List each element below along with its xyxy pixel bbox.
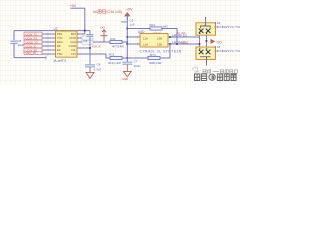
svg-text:1uF: 1uF (130, 22, 135, 26)
IC pin names left column (57, 32, 63, 56)
svg-text:U4D: U4D (138, 30, 145, 34)
svg-text:BAT: BAT (71, 32, 76, 36)
capacitor C5 (right of IC) (89, 31, 91, 34)
capacitor C7 (bus bottom) (122, 62, 132, 64)
wire: trunk x=177 (176, 29, 178, 45)
wire: Q1 to Q2 vertical x=206 (206, 35, 208, 47)
svg-text:HDGB02TVC.T30: HDGB02TVC.T30 (215, 49, 241, 53)
net label row 4 (24, 44, 42, 48)
svg-text:IOVD: IOVD (69, 36, 76, 40)
node: junction (206.5,41) (206, 40, 208, 42)
svg-text:UCAV_RX: UCAV_RX (26, 37, 38, 40)
svg-text:U2: U2 (54, 27, 58, 31)
ground symbol (under C4) (86, 72, 94, 78)
svg-text:CYRA2L 2L STETE3N: CYRA2L 2L STETE3N (140, 50, 182, 54)
svg-text:OO: OO (217, 40, 223, 44)
capacitor C4 (under C5 chain) (85, 65, 95, 67)
node: bus junction y=28.5 (126, 28, 128, 30)
node: junction (170,37) (169, 36, 171, 38)
svg-text:IA-4HT3: IA-4HT3 (54, 59, 66, 63)
wire: top rail y=30.5 (14, 30, 90, 32)
node: junction (170,44) (169, 43, 171, 45)
net label BAT (red row 6) (24, 51, 42, 55)
power arrow up (VOUT) (103, 31, 105, 42)
svg-text:C4: C4 (97, 63, 101, 67)
transistor Q1 body (196, 23, 216, 35)
svg-text:+5V_K: +5V_K (92, 45, 101, 49)
net label row 3 (24, 40, 42, 44)
wire: bottom-left horizontal to IC (14, 57, 46, 59)
node: junction (177,44) (176, 43, 178, 45)
transistor Q2 body (196, 47, 216, 59)
svg-text:R41: R41 (111, 37, 117, 41)
svg-text:L1A: L1A (143, 43, 148, 47)
node: junction (199.5,44) (199, 43, 201, 45)
svg-text:IO_1O: IO_1O (177, 31, 187, 35)
svg-text:L3B: L3B (157, 37, 162, 41)
wire: y=28.5 branch to R01 (127, 28, 177, 30)
svg-text:3K1(1.4W: 3K1(1.4W (108, 61, 121, 65)
Q2 bottom pin (206, 59, 208, 65)
node: junction y58 bus (126, 57, 128, 59)
node: junction bus y=42 (126, 41, 128, 43)
svg-text:UGND_TO: UGND_TO (26, 41, 38, 44)
node: bus junction y=44 (126, 43, 128, 45)
svg-text:1TX: 1TX (71, 52, 76, 56)
node: junction rail/+5V (84, 30, 86, 32)
svg-text:FB: FB (57, 44, 61, 48)
Q2 internal dual-FET symbols (199, 50, 211, 60)
IC pin names right column (69, 32, 77, 56)
svg-text:10uF: 10uF (18, 43, 25, 47)
pin tick at end of bottom-left wire (45, 56, 47, 60)
net label row 5 (24, 48, 42, 52)
resistor R31 (110, 56, 122, 59)
svg-text:+5V: +5V (70, 4, 77, 8)
svg-text:L3B: L3B (157, 43, 162, 47)
wire: left vertical drop (13, 31, 15, 58)
net port arrow (red) (211, 39, 216, 44)
capacitor C8 (left) (11, 41, 18, 43)
background sheet (0, 0, 240, 85)
net label row 2 (24, 36, 42, 40)
svg-text:GND: GND (122, 77, 130, 81)
svg-text:X_1E: X_1E (181, 40, 188, 44)
IC U2 body (56, 31, 78, 57)
watermark logo squiggle (192, 67, 199, 72)
svg-text:10uF: 10uF (134, 64, 141, 68)
wire: stub up from pin y34 to rail (84, 31, 86, 34)
Q1 top pin (205, 17, 207, 23)
svg-text:30B(14W: 30B(14W (149, 61, 162, 65)
wire: y=58 row (106, 54, 170, 58)
svg-text:04V: 04V (163, 25, 168, 29)
svg-text:UGO_1O: UGO_1O (26, 52, 36, 55)
svg-text:HDGB02TVC.T30: HDGB02TVC.T30 (215, 25, 241, 29)
svg-text:4K7(14W: 4K7(14W (112, 44, 124, 48)
svg-text:C1OE: C1OE (69, 44, 77, 48)
svg-text:5A: 5A (93, 10, 98, 14)
common-mode choke U4D body (140, 34, 168, 48)
resistor R01 (150, 27, 162, 30)
wire: IC left pin stubs (42, 34, 56, 54)
net label row 1 (24, 32, 42, 36)
svg-text:+5V: +5V (126, 8, 133, 12)
svg-text:EGA: EGA (57, 40, 63, 44)
wire: vertical from +5V corner down to rail (84, 8, 86, 30)
resistor RT3 (148, 56, 160, 59)
svg-text:EV: EV (57, 48, 61, 52)
svg-text:F3L: F3L (71, 48, 76, 52)
svg-text:UCAV_BD: UCAV_BD (26, 49, 38, 52)
resistor R41 (110, 40, 122, 43)
wire: bus to choke pins (127, 37, 140, 44)
svg-text:(C3a 145): (C3a 145) (106, 10, 122, 14)
svg-text:4.7uF: 4.7uF (94, 68, 102, 72)
capacitor C9 (tick on bus) (121, 21, 128, 23)
wire: choke right pins out (168, 37, 199, 44)
pin ticks at choke pins (137, 36, 139, 45)
svg-text:OO: OO (100, 26, 105, 30)
svg-text:UCAV_IO: UCAV_IO (26, 45, 37, 48)
wire: riser x=170 from y58 up to y44 (169, 44, 171, 58)
svg-text:TXD: TXD (57, 52, 62, 56)
watermark line 2 (195, 74, 237, 81)
svg-text:R31: R31 (109, 53, 115, 57)
svg-text:PB1: PB1 (57, 32, 63, 36)
ground symbol (bus bottom) (123, 71, 131, 76)
node: junction at (90,48) (89, 47, 91, 49)
pin ticks on left stubs (47, 33, 49, 56)
svg-text:L1A: L1A (143, 37, 148, 41)
wire: IC right pin stubs (77, 34, 127, 54)
svg-text:RT3: RT3 (150, 53, 156, 57)
Q1 internal dual-FET symbols (199, 23, 211, 33)
node: bus junction y=37 (126, 36, 128, 38)
svg-text:R01: R01 (150, 23, 156, 27)
wire: +5V flag bar top-left (71, 7, 86, 9)
svg-text:TYD: TYD (57, 36, 62, 40)
svg-text:C5: C5 (84, 39, 88, 43)
svg-text:UCAV_TX: UCAV_TX (26, 33, 38, 36)
wire: Q1 to Q2 vertical x=199 (199, 35, 201, 47)
pale net boxes right of IC (82, 36, 93, 40)
svg-text:CAG: CAG (70, 40, 76, 44)
watermark line 1 (203, 70, 237, 73)
svg-text:C7: C7 (134, 59, 138, 63)
wire: +5V bus vertical (126, 16, 128, 58)
